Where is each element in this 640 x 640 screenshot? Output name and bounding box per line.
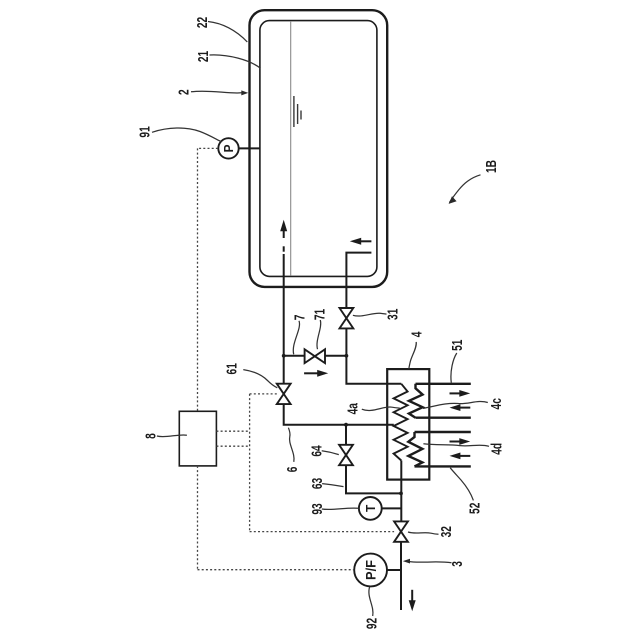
valve 71: [305, 349, 325, 363]
pressure sensor 91 circle P: [218, 138, 238, 158]
svg-text:7: 7: [290, 315, 308, 321]
leader 31: [353, 313, 387, 316]
leader 52: [450, 468, 473, 501]
pipe: left riser from tank to valve 61: [283, 254, 285, 384]
leader 7: [293, 321, 299, 355]
leader 3: [409, 562, 452, 563]
leader 93: [322, 508, 359, 509]
pump/flow sensor 92 circle P/F: [354, 554, 387, 587]
svg-text:4: 4: [407, 331, 425, 337]
leader 4a: [362, 407, 400, 411]
svg-text:71: 71: [310, 309, 328, 320]
svg-text:91: 91: [135, 126, 153, 137]
junction node valve71 right: [345, 354, 349, 358]
arrow down at drain: [411, 590, 413, 603]
signal line controller output lower: [216, 445, 249, 447]
coil 4c zigzag: [409, 384, 423, 418]
valve 64: [339, 445, 353, 465]
signal line P sensor to riser: [198, 147, 218, 149]
leader 91: [152, 128, 222, 142]
svg-text:4c: 4c: [487, 398, 505, 409]
leader 4: [409, 342, 416, 369]
leader 1B: [449, 175, 480, 203]
junction node main line: [399, 492, 403, 496]
leader 4c: [423, 402, 488, 409]
controller 8 box: [179, 411, 216, 466]
svg-text:6: 6: [283, 467, 301, 473]
svg-text:4d: 4d: [487, 443, 505, 455]
heat exchanger 4 body: [387, 369, 429, 480]
leader 8: [157, 435, 187, 437]
leader 64: [322, 451, 339, 455]
svg-text:93: 93: [308, 503, 326, 514]
svg-text:92: 92: [363, 618, 381, 629]
pipe: branch with valve 71, left side: [284, 355, 305, 357]
secondary line top of 4d: [415, 431, 471, 433]
leader 92: [369, 587, 373, 616]
arrow right under valve 71: [304, 372, 318, 374]
arrowhead leader 2: [241, 90, 248, 95]
arrow right 4d: [450, 441, 462, 443]
leader 22: [208, 22, 247, 43]
signal line riser down to controller top: [197, 148, 199, 411]
svg-text:64: 64: [308, 445, 326, 457]
arrow left 4d: [460, 455, 471, 457]
pipe: in-tank suction elbow: [346, 253, 371, 308]
arrowhead leader 3: [403, 559, 410, 564]
pipe: branch with valve 71, right side: [325, 355, 346, 357]
pipe: valve 32 to drain: [400, 542, 402, 610]
leader 61: [243, 370, 277, 388]
arrow left (flow out of tank): [358, 240, 372, 242]
arrow up (flow into tank): [283, 230, 285, 239]
svg-text:2: 2: [174, 89, 192, 95]
pipe: branch down to valve 64: [345, 425, 347, 445]
valve 31: [340, 308, 354, 328]
pipe: in-tank dashed tail of up arrow: [283, 246, 285, 251]
secondary line bottom of 4c: [416, 417, 471, 419]
temperature sensor 93 circle T: [359, 497, 382, 520]
signal line to valve 61: [250, 393, 277, 395]
tank 2 outer shell: [250, 10, 388, 287]
pipe: valve 61 to heat exchanger mid port: [284, 404, 394, 425]
leader 32: [408, 532, 439, 534]
svg-text:T: T: [364, 504, 378, 512]
svg-text:51: 51: [448, 340, 466, 351]
water surface mark: [294, 96, 301, 127]
arrowhead leader 1B: [449, 196, 457, 204]
junction node valve64 branch: [344, 423, 348, 427]
leader lines: [152, 22, 489, 617]
signal line controller output upper: [216, 430, 249, 432]
leader 4d: [423, 444, 489, 447]
leader 63: [322, 484, 343, 487]
tank 21 inner wall: [260, 21, 377, 277]
svg-text:63: 63: [308, 478, 326, 489]
leader 21: [210, 55, 261, 68]
leader 71: [317, 320, 321, 349]
arrow left 4c: [460, 407, 471, 409]
svg-text:P/F: P/F: [363, 560, 378, 580]
pipe: heat exchanger outlet down to valve 32: [400, 461, 402, 522]
svg-text:8: 8: [142, 433, 160, 439]
signal line riser to valves: [249, 394, 251, 532]
svg-text:3: 3: [448, 561, 466, 567]
leader 6: [288, 428, 294, 462]
arrow right 4c: [450, 392, 462, 394]
svg-text:61: 61: [222, 363, 240, 374]
junction node valve71 left: [282, 354, 286, 358]
secondary line 52 bottom of 4d: [415, 465, 471, 467]
svg-text:52: 52: [466, 503, 484, 514]
valve 32: [394, 521, 408, 541]
control signal dotted lines: [198, 148, 395, 569]
svg-text:32: 32: [437, 526, 455, 537]
svg-text:P: P: [222, 144, 236, 152]
water level line: [290, 21, 292, 276]
coil 4d zigzag: [408, 432, 422, 466]
pipe: valve31 to heat exchanger top port: [346, 328, 401, 383]
pipe: valve 64 to main line: [346, 465, 401, 493]
leader 51: [451, 353, 457, 383]
leader 2: [191, 91, 242, 93]
svg-text:31: 31: [384, 309, 402, 320]
svg-text:22: 22: [193, 17, 211, 28]
svg-text:4a: 4a: [344, 402, 362, 414]
svg-text:1B: 1B: [482, 160, 500, 173]
signal line to valve 32: [250, 531, 395, 533]
pipe: P/F sensor stub: [387, 569, 401, 571]
secondary line 51 top of 4c: [416, 383, 471, 385]
pipe: T sensor stub: [382, 507, 401, 509]
signal line controller bottom down: [197, 466, 199, 570]
coil 4a zigzag: [394, 384, 408, 461]
signal line to P/F sensor: [198, 569, 355, 571]
svg-text:21: 21: [194, 51, 212, 62]
pipe: P sensor stub: [239, 147, 260, 149]
valve 61: [277, 384, 291, 404]
